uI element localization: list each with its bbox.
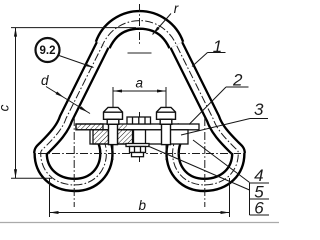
svg-text:2: 2 xyxy=(232,71,243,90)
svg-text:9.2: 9.2 xyxy=(40,45,56,57)
svg-text:b: b xyxy=(139,198,147,213)
svg-text:1: 1 xyxy=(213,37,222,56)
svg-text:r: r xyxy=(174,1,179,16)
svg-text:d: d xyxy=(41,73,49,88)
svg-text:3: 3 xyxy=(254,100,264,119)
svg-text:c: c xyxy=(0,104,12,111)
svg-text:a: a xyxy=(136,75,144,90)
svg-text:6: 6 xyxy=(254,199,264,218)
